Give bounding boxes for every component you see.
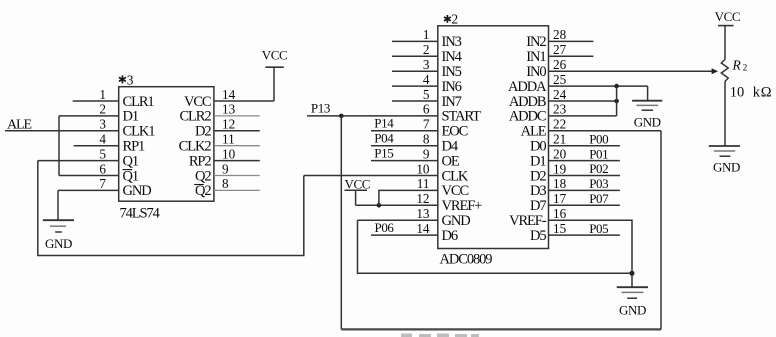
svg-text:P04: P04	[374, 130, 394, 145]
svg-text:P00: P00	[589, 131, 608, 146]
svg-text:VCC: VCC	[715, 9, 741, 24]
svg-text:VREF-: VREF-	[509, 213, 547, 229]
svg-text:IN6: IN6	[442, 79, 462, 95]
svg-text:4: 4	[423, 72, 430, 87]
svg-text:19: 19	[553, 161, 567, 176]
wire U3 pin11 stub	[214, 145, 260, 147]
wire U2 pin18 stub	[549, 189, 620, 191]
svg-text:74LS74: 74LS74	[120, 206, 161, 222]
svg-text:16: 16	[553, 206, 567, 221]
wire P14 to EOC	[371, 130, 438, 132]
ground GND3 below ADC	[617, 273, 648, 317]
svg-text:P14: P14	[374, 116, 394, 131]
wire bottom bus	[341, 328, 661, 330]
svg-text:GND: GND	[619, 303, 646, 318]
svg-text:12: 12	[222, 117, 235, 132]
svg-text:ADDC: ADDC	[509, 109, 546, 125]
wire U3 pin4 stub	[74, 145, 119, 147]
junction dot ADDA	[614, 84, 619, 89]
wire VCC2 to VREF+ pin12	[356, 204, 438, 206]
label *2	[444, 15, 451, 23]
svg-text:P01: P01	[589, 146, 608, 161]
svg-text:ADC0809: ADC0809	[440, 252, 493, 268]
svg-text:10: 10	[416, 161, 430, 176]
wire U2 pin22 ALE	[549, 130, 662, 132]
svg-text:VCC: VCC	[184, 94, 211, 110]
junction dot VCC2	[377, 203, 382, 208]
svg-text:D7: D7	[530, 198, 546, 214]
wire U2 pin1 stub	[392, 40, 438, 42]
wire Q1 to ADC CLK run	[38, 161, 304, 256]
svg-text:5: 5	[99, 146, 106, 161]
svg-text:13: 13	[416, 206, 430, 221]
svg-text:6: 6	[423, 102, 430, 117]
svg-text:26: 26	[553, 57, 567, 72]
wire U3 pin6 Q1-bar	[59, 175, 119, 177]
svg-text:22: 22	[553, 117, 566, 132]
wire VREF- pin16	[549, 220, 633, 273]
svg-text:IN3: IN3	[442, 34, 462, 50]
svg-text:7: 7	[423, 117, 430, 132]
caption remnant at bottom edge	[401, 334, 479, 337]
label *3	[119, 75, 126, 83]
wire P04 to D4	[371, 145, 438, 147]
svg-text:P13: P13	[311, 101, 330, 116]
svg-text:1: 1	[99, 87, 106, 102]
svg-text:1: 1	[423, 27, 430, 42]
wire IN0 to R2 wiper	[549, 70, 715, 72]
ground GND1 under 74LS74	[43, 190, 74, 251]
svg-text:17: 17	[553, 191, 567, 206]
wire U3 pin5 Q1	[38, 160, 119, 162]
svg-text:P03: P03	[589, 176, 608, 191]
svg-text:k: k	[753, 85, 761, 101]
svg-text:15: 15	[553, 221, 567, 236]
junction dot ADDB	[614, 99, 619, 104]
svg-text:2: 2	[423, 42, 430, 57]
arrowhead wiper	[712, 68, 718, 74]
power VCC3 above R2	[715, 9, 741, 60]
svg-text:OE: OE	[442, 153, 460, 169]
wire U3 pin14 to VCC	[214, 100, 274, 102]
wire ADDA pin25	[549, 85, 648, 87]
resistor R2 potentiometer zigzag	[721, 60, 728, 82]
wire U2 pin5 stub	[392, 100, 438, 102]
svg-text:24: 24	[553, 87, 567, 102]
svg-text:10: 10	[222, 146, 236, 161]
svg-text:P15: P15	[374, 145, 393, 160]
svg-text:CLK1: CLK1	[123, 124, 156, 140]
power VCC1 above 74LS74	[262, 48, 288, 102]
wire U3 pin9 stub	[214, 175, 260, 177]
ground GND4 under R2	[709, 146, 740, 175]
svg-text:Q2: Q2	[195, 168, 211, 184]
svg-text:3: 3	[423, 57, 430, 72]
svg-text:P02: P02	[589, 161, 608, 176]
svg-text:IN1: IN1	[526, 49, 546, 65]
svg-text:EOC: EOC	[442, 124, 468, 140]
svg-text:P05: P05	[589, 221, 608, 236]
wire CLK into U2 pin10	[304, 175, 438, 177]
svg-text:GND: GND	[45, 236, 72, 251]
wire ADDB pin24	[549, 100, 617, 102]
power VCC2 mid	[345, 176, 371, 205]
svg-text:D2: D2	[530, 168, 546, 184]
svg-text:ADDA: ADDA	[508, 79, 547, 95]
IC U3 74LS74 box	[119, 87, 214, 202]
svg-text:D0: D0	[530, 139, 546, 155]
svg-text:11: 11	[417, 176, 430, 191]
wire U2 pin17 stub	[549, 204, 620, 206]
svg-text:13: 13	[222, 102, 236, 117]
svg-text:4: 4	[99, 132, 106, 147]
svg-text:GND: GND	[442, 213, 471, 229]
wire U2 pin3 stub	[392, 70, 438, 72]
wire ALE to U3 pin3	[5, 130, 119, 132]
svg-text:28: 28	[553, 27, 567, 42]
svg-text:R: R	[732, 58, 742, 73]
svg-text:CLK2: CLK2	[179, 139, 212, 155]
svg-text:11: 11	[222, 132, 235, 147]
svg-text:10: 10	[730, 85, 745, 101]
wire U3 pin1 stub	[73, 100, 119, 102]
svg-text:Q1: Q1	[123, 153, 139, 169]
wire U2 pin15 stub	[549, 234, 620, 236]
svg-text:18: 18	[553, 176, 567, 191]
svg-text:VCC: VCC	[262, 48, 288, 63]
svg-text:12: 12	[416, 191, 429, 206]
svg-text:23: 23	[553, 102, 567, 117]
junction dot P13	[339, 114, 344, 119]
svg-text:IN0: IN0	[526, 64, 546, 80]
svg-text:D3: D3	[530, 183, 546, 199]
wire P13 down to bottom bus	[340, 116, 342, 330]
svg-text:D1: D1	[123, 109, 139, 125]
wire U3 pin7 GND	[58, 189, 119, 191]
svg-text:D4: D4	[442, 139, 459, 155]
svg-text:RP2: RP2	[189, 153, 212, 169]
svg-text:D6: D6	[442, 228, 458, 244]
svg-text:8: 8	[423, 132, 430, 147]
svg-text:9: 9	[423, 146, 430, 161]
svg-text:CLR1: CLR1	[123, 94, 155, 110]
svg-text:D1: D1	[530, 153, 546, 169]
svg-text:14: 14	[416, 221, 430, 236]
svg-text:GND: GND	[634, 115, 661, 130]
wire U2 pin13 GND	[358, 219, 438, 221]
ground GND2 for ADD lines	[632, 86, 662, 129]
svg-text:Q2: Q2	[195, 183, 211, 199]
svg-text:Ω: Ω	[761, 85, 772, 101]
wire U3 pin2 D1	[59, 115, 119, 117]
wire U3 pin12 stub	[214, 130, 260, 132]
svg-text:VREF+: VREF+	[442, 198, 483, 214]
svg-text:IN7: IN7	[442, 94, 462, 110]
wire VCC2 branch to pin11	[379, 190, 438, 205]
svg-text:25: 25	[553, 72, 567, 87]
wire P15 to OE	[371, 160, 438, 162]
wire P06 to D6	[371, 234, 438, 236]
svg-text:20: 20	[553, 146, 567, 161]
wire U2 pin2 stub	[392, 55, 438, 57]
svg-text:GND: GND	[123, 183, 152, 199]
IC U2 ADC0809 box	[438, 26, 549, 249]
svg-text:21: 21	[553, 132, 566, 147]
svg-text:CLK: CLK	[442, 168, 469, 184]
svg-text:2: 2	[99, 102, 106, 117]
wire U3 pin10 stub	[214, 160, 260, 162]
svg-text:IN4: IN4	[442, 49, 463, 65]
wire U2 pin19 stub	[549, 175, 620, 177]
svg-text:8: 8	[222, 176, 229, 191]
svg-text:CLR2: CLR2	[179, 109, 211, 125]
svg-text:2: 2	[451, 11, 458, 26]
wire R2 bottom	[724, 82, 726, 147]
wire ADDC pin23	[549, 115, 617, 117]
wire U2 pin27 stub	[549, 55, 594, 57]
svg-text:IN5: IN5	[442, 64, 462, 80]
svg-text:D2: D2	[195, 124, 211, 140]
svg-text:2: 2	[743, 63, 748, 73]
svg-text:START: START	[442, 109, 482, 125]
svg-text:5: 5	[423, 87, 430, 102]
svg-text:P07: P07	[589, 191, 609, 206]
wire P13 to START	[307, 115, 438, 117]
svg-text:VCC: VCC	[442, 183, 469, 199]
svg-text:IN2: IN2	[526, 34, 546, 50]
svg-text:RP1: RP1	[123, 139, 146, 155]
wire U3 pin8 stub	[214, 189, 260, 191]
svg-text:ADDB: ADDB	[509, 94, 546, 110]
wire U2 pin4 stub	[392, 85, 438, 87]
svg-text:ALE: ALE	[521, 124, 547, 140]
wire U2 pin20 stub	[549, 160, 620, 162]
svg-text:VCC: VCC	[345, 176, 371, 191]
wire U2 pin28 stub	[549, 40, 594, 42]
junction dot GND bus	[630, 271, 635, 276]
wire U2 pin21 stub	[549, 145, 620, 147]
svg-text:7: 7	[99, 176, 106, 191]
wire GND pin13 down	[358, 220, 633, 273]
svg-text:27: 27	[553, 42, 567, 57]
wire U3 pin13 stub	[214, 115, 260, 117]
svg-text:D5: D5	[530, 228, 546, 244]
wire D1 to Q1-bar feedback	[58, 116, 60, 176]
wire bottom bus up to ALE	[660, 131, 662, 330]
svg-text:6: 6	[99, 161, 106, 176]
svg-text:3: 3	[127, 72, 134, 87]
svg-text:3: 3	[99, 117, 106, 132]
wire ADD tie vertical	[616, 86, 618, 116]
svg-text:14: 14	[222, 87, 236, 102]
svg-text:9: 9	[222, 161, 229, 176]
svg-text:P06: P06	[375, 220, 395, 235]
svg-text:GND: GND	[713, 160, 740, 175]
svg-text:Q1: Q1	[123, 168, 139, 184]
